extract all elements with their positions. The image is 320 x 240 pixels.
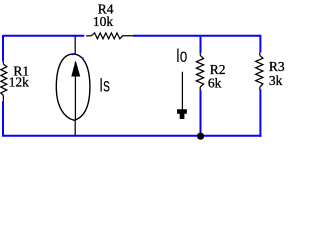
svg-text:3k: 3k xyxy=(269,73,283,88)
svg-text:6k: 6k xyxy=(208,76,222,91)
svg-text:12k: 12k xyxy=(9,75,30,90)
svg-text:Io: Io xyxy=(176,45,187,67)
svg-text:R3: R3 xyxy=(269,59,285,74)
svg-text:Is: Is xyxy=(99,74,110,96)
svg-text:10k: 10k xyxy=(93,14,114,29)
